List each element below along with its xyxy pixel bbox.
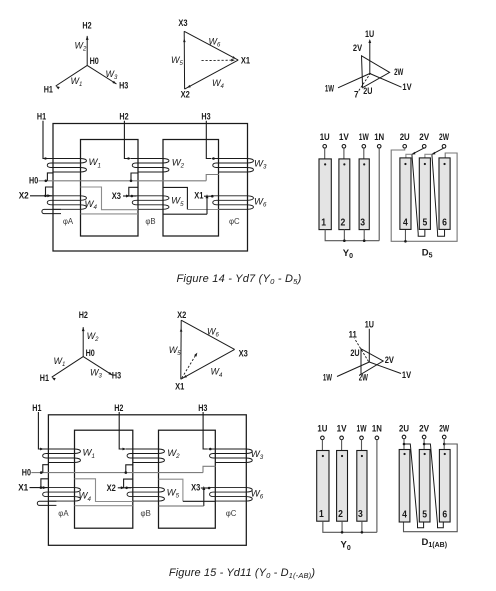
svg-text:1V: 1V: [402, 82, 411, 92]
svg-text:H3: H3: [119, 80, 128, 90]
wire W3 bottom to neutral: [206, 175, 219, 181]
svg-text:1U: 1U: [317, 424, 327, 435]
svg-text:W2: W2: [75, 41, 88, 53]
wire W3 phasor line: [83, 357, 112, 376]
delta triangle 2U-2V-2W: [361, 349, 383, 375]
svg-text:φB: φB: [141, 509, 151, 518]
winding coil 1 (Y bank): [319, 159, 331, 230]
wire W4 tail (gray): [75, 505, 133, 507]
svg-text:φB: φB: [145, 217, 155, 226]
svg-text:D5: D5: [422, 248, 433, 260]
wire X3 drop (limb C): [203, 488, 205, 506]
wire W3 phasor line: [87, 65, 116, 84]
svg-text:H3: H3: [201, 112, 210, 122]
svg-text:W3: W3: [254, 158, 267, 170]
winding W5 (limb B, LV): [126, 488, 165, 502]
svg-text:W3: W3: [106, 69, 119, 81]
svg-text:H2: H2: [119, 112, 128, 122]
wire 1V stem: [341, 440, 343, 451]
winding coil 6 (D bank): [439, 450, 450, 523]
svg-text:1N: 1N: [374, 132, 384, 143]
svg-text:Y0: Y0: [343, 248, 353, 260]
svg-text:2U: 2U: [399, 424, 409, 435]
svg-text:W5: W5: [169, 345, 182, 357]
svg-text:H0: H0: [86, 348, 95, 358]
winding W5 (limb B, LV): [131, 196, 169, 210]
winding coil 3 (Y bank): [357, 451, 367, 522]
wire W5 edge: [183, 31, 185, 89]
winding W4 (limb A, LV): [41, 488, 80, 502]
wire delta link B: [163, 187, 187, 209]
svg-text:4: 4: [402, 510, 407, 521]
svg-text:3: 3: [360, 217, 365, 228]
svg-text:1N: 1N: [372, 424, 382, 435]
svg-text:Y0: Y0: [341, 540, 351, 552]
svg-text:X2: X2: [181, 89, 190, 99]
svg-text:2W: 2W: [439, 424, 450, 435]
svg-text:W1: W1: [89, 157, 101, 169]
wire 1V phasor: [370, 74, 402, 88]
wire delta link A (gray): [81, 187, 139, 210]
svg-text:2V: 2V: [419, 132, 429, 143]
svg-text:D1(AB): D1(AB): [422, 537, 448, 549]
winding W3 (limb C, HV): [212, 159, 254, 173]
svg-text:W4: W4: [211, 367, 224, 379]
svg-text:X1: X1: [175, 382, 184, 392]
svg-text:2W: 2W: [359, 373, 369, 383]
svg-text:2V: 2V: [385, 355, 394, 365]
svg-text:6: 6: [442, 218, 447, 229]
winding coil 2 (Y bank): [337, 451, 348, 522]
wire W2 phasor line: [86, 36, 88, 66]
svg-text:2W: 2W: [439, 132, 450, 143]
wire coil 3 bottom: [361, 521, 363, 532]
svg-text:W5: W5: [167, 487, 180, 499]
svg-text:2: 2: [340, 217, 345, 228]
wire Y neutral bus: [325, 230, 379, 241]
wire W1 phasor line: [56, 65, 87, 86]
svg-text:φA: φA: [63, 217, 74, 226]
svg-text:H0: H0: [90, 56, 99, 66]
dashed reference arrow: [182, 356, 196, 379]
winding coil 2 (Y bank): [339, 159, 350, 230]
wire 2U stem: [403, 439, 405, 450]
svg-text:H2: H2: [82, 21, 91, 31]
svg-text:1: 1: [319, 509, 324, 520]
svg-text:2U: 2U: [400, 132, 410, 143]
winding coil 1 (Y bank): [317, 451, 329, 522]
core window 1: [75, 430, 133, 528]
svg-text:W4: W4: [85, 199, 98, 211]
wire 1U phasor: [369, 41, 371, 74]
svg-text:W2: W2: [167, 448, 180, 460]
wire 1W stem: [363, 148, 365, 159]
wire W2 bottom to neutral: [131, 173, 139, 181]
svg-text:X2: X2: [107, 483, 116, 493]
wire X2 jumper over limb B: [124, 479, 134, 488]
wire W4 edge: [185, 60, 239, 89]
core window 2: [159, 430, 216, 528]
wire 1W stem: [361, 440, 363, 451]
wire 1N down: [376, 440, 378, 533]
svg-text:2: 2: [338, 509, 343, 520]
dashed 11 o-clock direction: [355, 339, 369, 362]
wire 1V phasor: [369, 362, 401, 374]
svg-text:φC: φC: [226, 509, 237, 518]
svg-text:X2: X2: [177, 310, 186, 320]
svg-text:W3: W3: [251, 449, 264, 461]
svg-text:11: 11: [349, 329, 357, 339]
svg-text:H2: H2: [114, 403, 123, 413]
svg-text:7: 7: [354, 89, 359, 99]
svg-text:1U: 1U: [365, 29, 374, 39]
wire 2W diagonal to coil5: [432, 148, 444, 154]
svg-text:X1: X1: [18, 482, 28, 492]
svg-text:X3: X3: [239, 349, 248, 359]
svg-text:H1: H1: [32, 403, 41, 413]
svg-text:2V: 2V: [353, 43, 362, 53]
winding W2 (limb B, HV): [131, 159, 169, 173]
wire X1 jumper over limb A: [41, 479, 49, 488]
svg-text:H3: H3: [198, 403, 207, 413]
svg-text:φA: φA: [58, 509, 69, 518]
transformer core outline: [53, 124, 248, 252]
wire W1 phasor line: [52, 357, 83, 378]
wire W2 bottom to neutral: [126, 465, 134, 473]
wire 1N down: [378, 148, 380, 241]
wire 1V stem: [343, 148, 345, 159]
svg-text:W2: W2: [172, 157, 185, 169]
wire X3 jumper over limb B: [129, 187, 139, 196]
svg-text:1W: 1W: [357, 424, 368, 435]
svg-text:2U: 2U: [363, 86, 372, 96]
wire W6 edge: [181, 320, 234, 349]
svg-text:H1: H1: [40, 373, 49, 383]
winding coil 4 (D bank): [400, 158, 411, 230]
wire 2W wrap to coil4 bottom: [404, 444, 458, 532]
wire 2V diagonal to coil4: [412, 148, 424, 154]
svg-text:X1: X1: [241, 55, 250, 65]
svg-text:W1: W1: [54, 356, 66, 368]
wire 1U stem: [321, 440, 323, 451]
wire delta link A (gray): [75, 479, 133, 502]
svg-text:H2: H2: [79, 310, 88, 320]
winding W2 (limb B, HV): [126, 449, 165, 463]
wire W1 bottom to neutral: [47, 173, 53, 181]
svg-text:W2: W2: [87, 331, 100, 343]
wire X1 drop (limb C): [206, 196, 208, 214]
svg-text:5: 5: [422, 218, 427, 229]
wire coil4 bottom to bus: [404, 229, 406, 241]
wire 1U stem: [324, 148, 326, 159]
svg-text:5: 5: [422, 510, 427, 521]
wire X2 jumper over limb A: [46, 187, 54, 196]
dashed 7 o-clock direction: [358, 73, 371, 92]
wire coil5 bottom cross-link: [412, 155, 425, 237]
svg-text:6: 6: [442, 510, 447, 521]
wire 1W phasor: [338, 74, 370, 88]
core window 1: [81, 140, 139, 237]
svg-text:X2: X2: [19, 191, 29, 201]
svg-text:H0: H0: [29, 176, 38, 186]
W4 end-turn bar: [42, 209, 61, 213]
svg-text:1W: 1W: [325, 84, 335, 94]
svg-text:1U: 1U: [320, 132, 330, 143]
wire 2U wrap-around: [391, 148, 457, 241]
winding coil 6 (D bank): [439, 158, 450, 230]
svg-text:X3: X3: [191, 483, 200, 493]
wire W4 tail (gray): [81, 213, 139, 215]
svg-text:W4: W4: [79, 491, 92, 503]
svg-text:W4: W4: [212, 78, 225, 90]
wire 2V stem: [423, 439, 425, 450]
svg-text:W6: W6: [209, 37, 222, 49]
svg-text:1W: 1W: [359, 132, 370, 143]
wire W5 edge: [180, 320, 182, 379]
svg-text:W6: W6: [254, 197, 267, 209]
svg-text:H0: H0: [22, 467, 31, 477]
wire 2U cross-link to coil5 bottom: [404, 444, 424, 528]
wire coil 3 bottom: [363, 230, 365, 241]
svg-text:1U: 1U: [365, 319, 374, 329]
svg-text:W6: W6: [251, 488, 264, 500]
svg-text:W3: W3: [90, 368, 103, 380]
winding coil 4 (D bank): [399, 450, 410, 523]
winding coil 5 (D bank): [419, 158, 430, 230]
svg-text:X3: X3: [178, 18, 187, 28]
svg-text:X3: X3: [112, 191, 121, 201]
svg-text:1V: 1V: [339, 132, 349, 143]
wire 2W stem: [443, 439, 445, 450]
transformer core outline: [48, 415, 246, 546]
wire coil 2 bottom: [343, 230, 345, 241]
winding coil 3 (Y bank): [359, 159, 369, 230]
wire 2V cross-link to coil6 bottom: [424, 444, 443, 528]
wire W2 phasor line: [82, 327, 84, 357]
winding W4 (limb A, LV): [46, 196, 87, 210]
svg-text:W1: W1: [83, 448, 95, 460]
svg-text:4: 4: [403, 218, 408, 229]
svg-text:2V: 2V: [419, 424, 429, 435]
svg-text:H3: H3: [112, 371, 121, 381]
wire W6 edge: [184, 31, 238, 60]
wire 1U phasor: [368, 329, 370, 362]
wire Y neutral bus: [323, 521, 377, 532]
svg-text:3: 3: [358, 509, 363, 520]
svg-text:φC: φC: [229, 217, 240, 226]
wire W3 bottom to neutral: [203, 466, 216, 472]
delta triangle 2U-2V-2W: [362, 56, 390, 88]
wire coil 2 bottom: [341, 521, 343, 532]
svg-text:X1: X1: [194, 191, 203, 201]
winding W1 (limb A, HV): [46, 159, 87, 173]
svg-text:2W: 2W: [394, 67, 404, 77]
svg-text:1V: 1V: [402, 370, 411, 380]
core window 2: [163, 140, 219, 237]
wire W1 bottom to neutral: [43, 465, 49, 473]
svg-text:H1: H1: [44, 84, 53, 94]
wire delta link B: [159, 479, 183, 501]
wire 1W phasor: [337, 362, 369, 377]
svg-text:1: 1: [321, 217, 326, 228]
svg-text:2U: 2U: [350, 348, 359, 358]
winding coil 5 (D bank): [419, 450, 430, 523]
winding W6 (limb C, LV): [208, 488, 252, 502]
svg-text:W5: W5: [171, 196, 184, 208]
svg-text:Figure 14 - Yd7 (Y0 - D5): Figure 14 - Yd7 (Y0 - D5): [176, 273, 301, 286]
W4 end-turn bar: [37, 501, 56, 505]
wire W4 edge: [181, 349, 235, 379]
winding W6 (limb C, LV): [212, 196, 254, 210]
winding W3 (limb C, HV): [208, 449, 252, 463]
winding W1 (limb A, HV): [41, 449, 80, 463]
dashed reference arrow to X1: [202, 59, 232, 61]
svg-text:Figure 15 - Yd11 (Y0 - D1(-AB): Figure 15 - Yd11 (Y0 - D1(-AB)): [169, 567, 315, 580]
svg-text:1W: 1W: [323, 373, 333, 383]
svg-text:1V: 1V: [337, 424, 347, 435]
wire coil6 bottom cross-link: [432, 155, 445, 237]
svg-text:W5: W5: [171, 55, 184, 67]
svg-text:W6: W6: [207, 326, 220, 338]
svg-text:H1: H1: [37, 112, 46, 122]
svg-text:W1: W1: [71, 76, 83, 88]
